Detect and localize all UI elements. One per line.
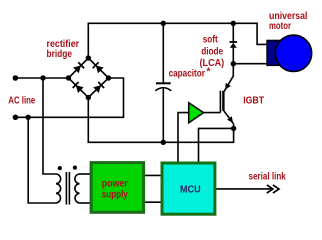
svg-text:MCU: MCU [180,185,201,196]
svg-text:bridge: bridge [47,49,73,60]
svg-text:IGBT: IGBT [243,95,264,106]
svg-text:motor: motor [269,21,291,32]
svg-text:AC line: AC line [8,95,35,106]
svg-text:power: power [102,179,128,190]
svg-text:(LCA): (LCA) [200,58,225,69]
svg-text:soft: soft [203,35,219,46]
svg-text:*: * [207,67,211,78]
svg-text:capacitor: capacitor [169,69,205,80]
svg-text:supply: supply [102,189,128,200]
svg-text:diode: diode [201,46,223,57]
svg-text:serial link: serial link [249,172,287,183]
